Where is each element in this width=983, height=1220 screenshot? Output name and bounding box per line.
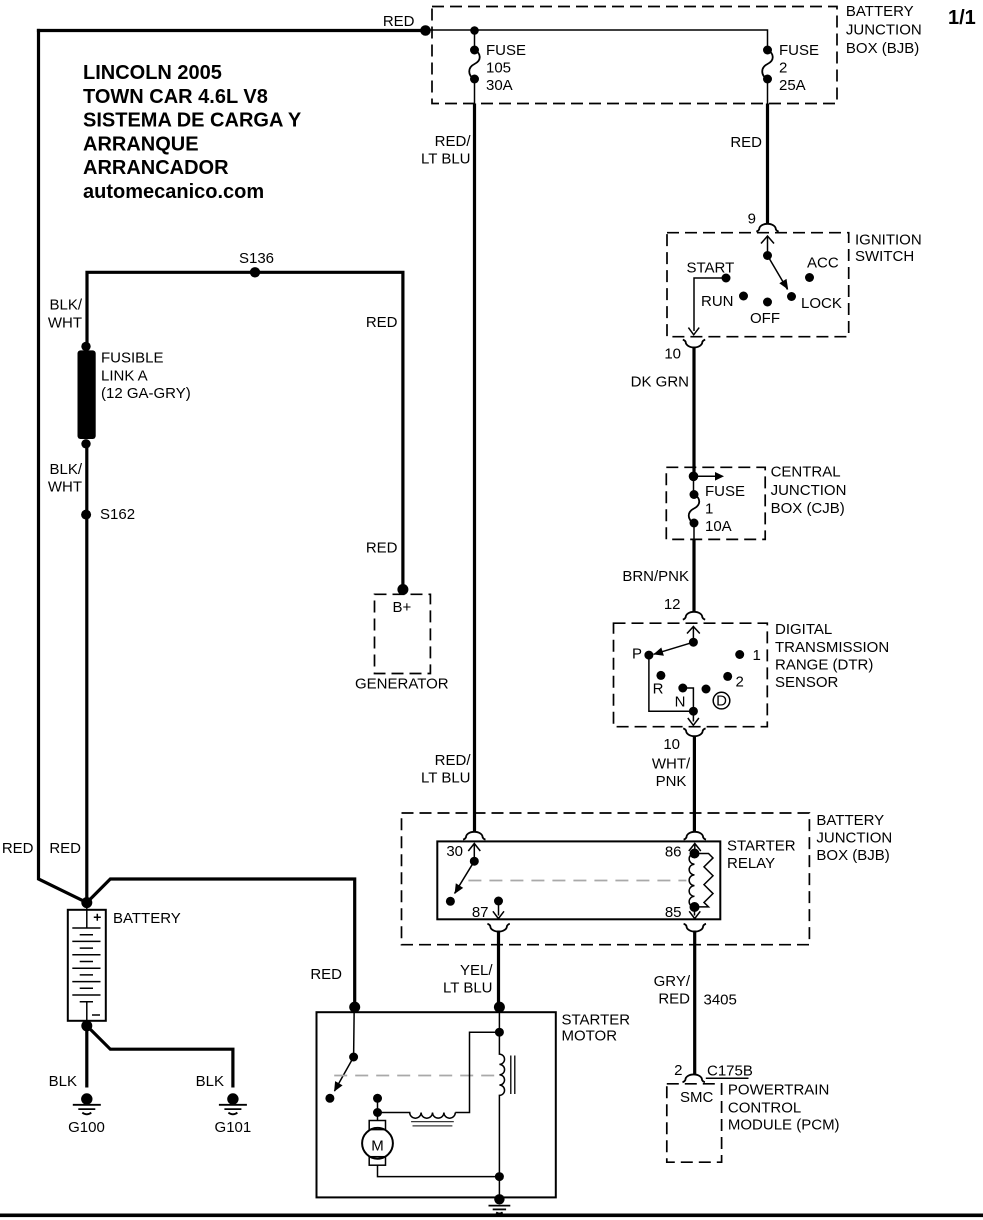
connector arc into relay pin 86 (684, 832, 706, 840)
svg-text:105: 105 (486, 60, 511, 77)
svg-text:S136: S136 (239, 250, 274, 267)
svg-text:FUSE: FUSE (779, 42, 819, 59)
title block (83, 62, 302, 203)
wire: battery to starter motor RED (87, 879, 355, 1007)
relay pin 87 (472, 897, 504, 922)
svg-text:N: N (675, 694, 686, 711)
svg-text:85: 85 (665, 904, 682, 921)
svg-text:G100: G100 (68, 1119, 105, 1136)
svg-text:GRY/: GRY/ (654, 973, 691, 990)
wire: to case ground (498, 1177, 500, 1198)
svg-text:86: 86 (665, 844, 682, 861)
ignition switch wiper to LOCK (768, 256, 789, 290)
svg-text:CENTRAL: CENTRAL (771, 464, 841, 481)
battery (68, 903, 106, 1026)
svg-text:2: 2 (779, 60, 787, 77)
wire: battery negative to G101 (87, 1026, 233, 1088)
svg-text:RED/: RED/ (435, 133, 472, 150)
wire: START output to pin 10 (688, 278, 726, 335)
node: generator B+ terminal (397, 584, 408, 595)
node S162 (81, 510, 91, 520)
node: YEL/LT BLU entry to starter motor (494, 1002, 505, 1013)
fusible link A (78, 342, 191, 449)
DTR contact 2 (723, 672, 732, 681)
ground G101 (219, 1093, 247, 1114)
connector pin 10 (DTR output) (663, 728, 705, 753)
DTR rotor arrow (pin 12) (687, 627, 700, 647)
svg-text:FUSE: FUSE (486, 42, 526, 59)
svg-text:30: 30 (446, 843, 463, 860)
wire: WHT/PNK from DTR to starter relay (693, 737, 696, 832)
powertrain control module dashed box (667, 1084, 722, 1162)
starter relay box (437, 841, 720, 919)
svg-text:JUNCTION: JUNCTION (771, 482, 847, 499)
svg-text:RED: RED (383, 13, 415, 30)
svg-text:(12 GA-GRY): (12 GA-GRY) (101, 385, 191, 402)
wire: S136 bus (87, 272, 403, 589)
connector pin 2 C175B (674, 1062, 753, 1082)
svg-text:ACC: ACC (807, 255, 839, 272)
hold-in winding coil (499, 1032, 514, 1176)
pull-in winding coil (378, 1113, 456, 1119)
wire: pull-in winding branch (455, 1032, 499, 1112)
svg-text:RUN: RUN (701, 293, 734, 310)
svg-text:RANGE (DTR): RANGE (DTR) (775, 657, 873, 674)
svg-text:WHT: WHT (48, 479, 82, 496)
relay switch arm (446, 861, 474, 906)
svg-text:RED: RED (2, 840, 34, 857)
svg-text:SMC: SMC (680, 1089, 714, 1106)
svg-text:1/1: 1/1 (948, 7, 976, 29)
svg-text:FUSE: FUSE (705, 483, 745, 500)
DTR contact 1 (735, 650, 744, 659)
svg-text:BLK: BLK (49, 1073, 77, 1090)
pull-in winding core (411, 1122, 454, 1126)
node: RED entry to starter motor (349, 1002, 360, 1013)
svg-text:OFF: OFF (750, 310, 780, 327)
svg-text:BOX (BJB): BOX (BJB) (846, 40, 919, 57)
svg-text:RED: RED (658, 991, 690, 1008)
node: CJB feed splice with arrow (689, 472, 724, 482)
svg-text:WHT: WHT (48, 314, 82, 331)
svg-text:S162: S162 (100, 506, 135, 523)
svg-text:DK GRN: DK GRN (631, 374, 689, 391)
starter motor box (317, 1012, 556, 1197)
fuse 1 10A (CJB) (689, 476, 745, 539)
bottom border bar (0, 1214, 983, 1218)
svg-text:LT BLU: LT BLU (421, 151, 470, 168)
motor M with brushes (362, 1098, 499, 1176)
svg-text:ARRANCADOR: ARRANCADOR (83, 157, 229, 179)
svg-text:RED: RED (366, 540, 398, 557)
svg-text:P: P (632, 646, 642, 663)
svg-text:PNK: PNK (656, 773, 687, 790)
connector pin 10 (ignition switch output) (664, 340, 705, 363)
node: motor return junction (495, 1172, 504, 1181)
svg-text:LINCOLN 2005: LINCOLN 2005 (83, 62, 222, 84)
wire: BLK/WHT below fusible link to battery (85, 443, 88, 903)
relay mechanical dashed link (468, 880, 686, 882)
svg-text:automecanico.com: automecanico.com (83, 181, 264, 203)
svg-text:BOX (BJB): BOX (BJB) (816, 847, 889, 864)
svg-text:BLK/: BLK/ (49, 297, 82, 314)
solenoid switch arm (325, 1057, 353, 1103)
DTR contact N (678, 684, 687, 693)
svg-text:3405: 3405 (704, 992, 737, 1009)
svg-text:9: 9 (748, 211, 756, 228)
svg-text:12: 12 (664, 596, 681, 613)
svg-text:FUSIBLE: FUSIBLE (101, 350, 164, 367)
svg-text:LINK A: LINK A (101, 368, 148, 385)
ignition switch dashed box (667, 233, 849, 337)
relay coil 86-85 (689, 854, 713, 913)
svg-text:IGNITION: IGNITION (855, 232, 922, 249)
svg-text:STARTER: STARTER (727, 838, 796, 855)
svg-text:SENSOR: SENSOR (775, 674, 839, 691)
svg-text:CONTROL: CONTROL (728, 1099, 801, 1116)
svg-text:YEL/: YEL/ (460, 962, 493, 979)
svg-text:10: 10 (663, 736, 680, 753)
svg-text:TRANSMISSION: TRANSMISSION (775, 639, 889, 656)
ground G100 (73, 1093, 101, 1114)
svg-text:BATTERY: BATTERY (846, 3, 914, 20)
svg-text:2: 2 (736, 674, 744, 691)
wire: DK GRN ignition to CJB (692, 348, 695, 477)
connector pin 9 (ignition switch) (748, 211, 779, 232)
svg-text:RED: RED (730, 134, 762, 151)
fuse 105 30A (469, 26, 526, 103)
wire: RED/LT BLU from fuse 105 down to starter relay (473, 104, 476, 832)
svg-text:RELAY: RELAY (727, 855, 775, 872)
relay pin 85 (665, 904, 700, 921)
wire: P contact loop to output pin 10 (649, 655, 694, 711)
wire: top RED feed from battery loop to BJB (37, 29, 426, 32)
svg-text:GENERATOR: GENERATOR (355, 676, 449, 693)
wire: YEL/LT BLU relay 87 to starter motor (497, 931, 500, 1008)
connector arc below relay pin 85 (684, 924, 706, 932)
svg-text:SISTEMA DE CARGA Y: SISTEMA DE CARGA Y (83, 110, 302, 132)
svg-text:MOTOR: MOTOR (562, 1028, 618, 1045)
svg-text:2: 2 (674, 1062, 682, 1079)
node: battery positive junction (81, 897, 92, 908)
svg-text:D: D (716, 693, 727, 710)
node: solenoid winding split (495, 1028, 504, 1037)
DTR circled D (713, 692, 730, 709)
wire: RED from fuse 2 down to ignition switch (766, 104, 769, 225)
connector arc below relay pin 87 (487, 924, 509, 932)
svg-text:DIGITAL: DIGITAL (775, 621, 832, 638)
svg-text:30A: 30A (486, 77, 513, 94)
DTR contact R (656, 671, 665, 680)
node: solenoid switch pivot (349, 1053, 358, 1062)
svg-text:BRN/PNK: BRN/PNK (622, 568, 689, 585)
generator dashed box (375, 594, 431, 673)
svg-text:LT BLU: LT BLU (421, 770, 470, 787)
svg-text:10: 10 (664, 346, 681, 363)
DTR sensor dashed box (614, 623, 768, 727)
DTR contact D dot (702, 685, 711, 694)
battery junction box (BJB) dashed outline (432, 7, 837, 104)
svg-text:LT BLU: LT BLU (443, 980, 492, 997)
svg-text:RED/: RED/ (435, 752, 472, 769)
fuse 2 25A (762, 42, 819, 104)
connector pin 12 (DTR sensor) (664, 596, 705, 620)
svg-text:MODULE (PCM): MODULE (PCM) (728, 1117, 840, 1134)
svg-text:SWITCH: SWITCH (855, 248, 914, 265)
svg-text:10A: 10A (705, 518, 732, 535)
svg-text:1: 1 (753, 647, 761, 664)
ground (starter motor case) (489, 1194, 511, 1214)
wire: left vertical RED from top bus to battery (39, 29, 87, 903)
node: DTR output junction (689, 707, 698, 716)
svg-text:STARTER: STARTER (562, 1012, 631, 1029)
svg-text:R: R (653, 681, 664, 698)
wire: N contact to output (683, 688, 694, 711)
node: battery negative junction (81, 1020, 92, 1031)
svg-text:JUNCTION: JUNCTION (816, 829, 892, 846)
mechanical dashed link (solenoid) (334, 1075, 498, 1077)
svg-text:WHT/: WHT/ (652, 756, 691, 773)
svg-text:BLK: BLK (196, 1073, 224, 1090)
central junction box (CJB) dashed outline (666, 467, 765, 539)
DTR output arrow (pin 10) (688, 711, 699, 725)
DTR wiper to P (653, 642, 693, 656)
svg-text:1: 1 (705, 501, 713, 518)
wire: battery negative to G100 (85, 1026, 88, 1088)
svg-text:LOCK: LOCK (801, 295, 842, 312)
svg-text:B+: B+ (393, 599, 412, 616)
wire: solenoid feed into motor (498, 1007, 500, 1032)
ignition switch rotor arrow (pin 9) (761, 236, 774, 260)
svg-text:ARRANQUE: ARRANQUE (83, 133, 199, 155)
relay pin 86 arrow (665, 844, 701, 861)
svg-text:RED: RED (310, 966, 342, 983)
svg-text:BATTERY: BATTERY (816, 812, 884, 829)
svg-text:M: M (371, 1138, 384, 1155)
wire: thin bus inside BJB to fuse 2 (426, 30, 768, 46)
wire: solenoid switch feed (353, 1007, 356, 1057)
svg-text:BATTERY: BATTERY (113, 910, 181, 927)
relay pin 30 arrow (446, 843, 480, 866)
svg-text:POWERTRAIN: POWERTRAIN (728, 1082, 829, 1099)
svg-text:RED: RED (366, 314, 398, 331)
svg-text:25A: 25A (779, 77, 806, 94)
wire: GRY/RED relay 85 to PCM (693, 931, 696, 1076)
svg-text:C175B: C175B (707, 1063, 753, 1080)
svg-text:JUNCTION: JUNCTION (846, 21, 922, 38)
wire: BRN/PNK from CJB to DTR sensor (692, 539, 695, 611)
battery junction box (BJB) 2 dashed outline (402, 813, 810, 945)
svg-text:TOWN CAR 4.6L V8: TOWN CAR 4.6L V8 (83, 86, 268, 108)
starter motor contact (373, 1094, 382, 1103)
node S136 (250, 267, 260, 277)
connector arc into relay pin 30 (463, 832, 485, 840)
svg-text:BOX (CJB): BOX (CJB) (771, 500, 845, 517)
svg-text:G101: G101 (215, 1119, 252, 1136)
svg-text:BLK/: BLK/ (49, 461, 82, 478)
svg-text:87: 87 (472, 904, 489, 921)
node: splice on top bus (420, 25, 431, 36)
svg-text:RED: RED (49, 840, 81, 857)
